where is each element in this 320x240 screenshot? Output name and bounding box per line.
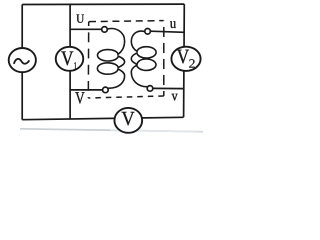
terminal v (secondary bottom) — [147, 86, 153, 92]
wire: tap to primary top terminal U — [70, 28, 101, 30]
terminal V (primary bottom) — [103, 87, 109, 93]
wire: left drop to ac source — [21, 5, 23, 50]
node label V — [75, 92, 84, 103]
wire: bottom horizontal — [22, 117, 183, 119]
terminal U (primary top) — [102, 27, 108, 33]
ac source sine symbol — [14, 59, 30, 64]
node label U — [76, 15, 84, 23]
ac source circle — [9, 48, 36, 72]
voltmeter V1 label — [61, 52, 73, 66]
scan artifact: lighter halo of the bottom band, right side — [110, 130, 203, 132]
node label v — [172, 94, 178, 101]
wire: top horizontal — [22, 3, 184, 5]
wire: ac source bottom to bottom rail — [21, 71, 23, 120]
wire: secondary top terminal to right vertical — [150, 31, 184, 32]
dashed box around transformer — [88, 21, 164, 98]
voltmeter V label (bottom) — [122, 112, 135, 126]
transformer primary coil — [97, 29, 124, 89]
voltmeter V2 label — [177, 50, 189, 64]
voltmeter V1 circle — [56, 47, 84, 71]
wire: primary bottom terminal to V1 branch — [70, 89, 103, 91]
voltmeter V circle (bottom) — [114, 108, 142, 133]
wire: V1 branch vertical — [69, 4, 71, 119]
node label u — [170, 21, 176, 28]
wire: secondary bottom terminal to right vertical — [153, 87, 184, 89]
terminal u (secondary top) — [145, 29, 151, 35]
transformer secondary coil — [131, 31, 156, 87]
voltmeter V2 circle — [171, 47, 200, 71]
wire: right vertical — [183, 4, 186, 117]
scan artifact: faint gray band along the bottom — [20, 129, 203, 132]
